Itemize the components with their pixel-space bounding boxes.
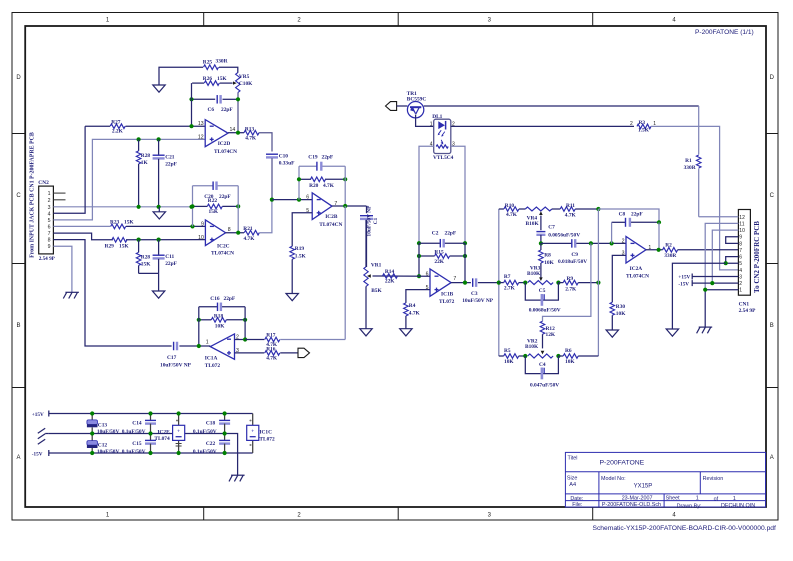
svg-text:6: 6 [48, 224, 51, 230]
svg-text:22pF: 22pF [322, 155, 334, 161]
node C8 right [657, 220, 661, 224]
node C7 bottom [539, 241, 543, 245]
node VR3 left [523, 281, 527, 285]
svg-text:R7: R7 [504, 274, 511, 280]
op-amp IC2D [198, 120, 237, 155]
resistor R12 [540, 321, 556, 338]
potentiometer VR5 [233, 73, 253, 93]
svg-text:0.0056uF/50V: 0.0056uF/50V [548, 233, 580, 239]
wire C6 top [192, 98, 239, 100]
wire IC2B feedback right [344, 166, 346, 206]
wire CN1 pin11 to gnd [705, 223, 738, 289]
svg-text:C16: C16 [210, 296, 220, 302]
wire CN1 pin10 to -15V [712, 230, 738, 283]
resistor R15 [434, 249, 449, 265]
resistor R26 [203, 76, 228, 85]
svg-text:15K: 15K [209, 209, 219, 215]
wire IC1B feedback left [418, 243, 420, 276]
svg-text:15K: 15K [141, 261, 151, 267]
wire R2 to CN1 pin7 [678, 249, 739, 251]
wire IC2C feedback left [192, 186, 194, 227]
capacitor C15 [122, 434, 156, 456]
svg-text:1: 1 [696, 496, 699, 502]
node R20 left [297, 177, 301, 181]
svg-text:C4: C4 [539, 362, 546, 368]
svg-text:22pF: 22pF [631, 212, 643, 218]
wire IC2B pin5 R19 [292, 213, 312, 247]
svg-text:1.5K: 1.5K [638, 128, 650, 134]
wire C7 to pin2 line [540, 235, 542, 244]
svg-text:IC2E: IC2E [157, 429, 170, 435]
capacitor C18 [193, 414, 230, 436]
svg-text:Drawn By:: Drawn By: [677, 503, 702, 509]
wire VR1 to ground [365, 286, 367, 328]
svg-text:C: C [16, 193, 21, 199]
svg-text:6: 6 [739, 255, 742, 261]
svg-text:10K: 10K [544, 260, 554, 266]
wire TR1 top line to R1 [424, 105, 699, 107]
resistor R28 1K [136, 139, 150, 206]
svg-text:Revision: Revision [703, 476, 724, 482]
left side label From INPUT JACK PCB CN1 P-200FAPRE PCB [29, 132, 35, 258]
svg-text:0.047uF/50V: 0.047uF/50V [530, 383, 559, 389]
svg-text:2.2K: 2.2K [112, 129, 124, 135]
svg-text:R28: R28 [141, 254, 151, 260]
svg-text:R17: R17 [266, 333, 276, 339]
svg-text:A: A [770, 455, 774, 461]
node CN1 pin1 [703, 288, 707, 292]
svg-text:R30: R30 [616, 304, 626, 310]
wire feedback left vertical IC2D [191, 83, 193, 126]
node pin3 line C21 [157, 205, 161, 209]
potentiometer VR1 [364, 220, 383, 294]
wire IC2C output [226, 232, 244, 234]
svg-text:R14: R14 [385, 269, 395, 275]
svg-text:C19: C19 [308, 155, 318, 161]
resistor R19 [290, 246, 307, 259]
node C21 top [157, 137, 161, 141]
svg-text:R27: R27 [111, 120, 121, 126]
wire C10 down to IC2B pin6 [271, 158, 273, 199]
wire R1 to CN1 pin12 [698, 169, 700, 217]
svg-text:C9: C9 [571, 252, 578, 258]
wire R23 line [126, 225, 205, 227]
optocoupler DL1 [430, 114, 455, 161]
wire CN2 pin3 line [53, 206, 191, 208]
wire R26 line [192, 82, 233, 84]
svg-text:IC2D: IC2D [218, 141, 231, 147]
svg-text:DL1: DL1 [432, 114, 442, 120]
node rail2 C13 [90, 431, 94, 435]
node R22 left [190, 204, 194, 208]
svg-text:C17: C17 [167, 355, 177, 361]
wire CN2 pin6 R23 line left [53, 225, 110, 227]
svg-text:R1: R1 [685, 158, 692, 164]
node C11 top [157, 238, 161, 242]
svg-text:0.1uF/50V: 0.1uF/50V [122, 429, 146, 435]
capacitor C16 [210, 296, 236, 311]
svg-text:330R: 330R [664, 253, 676, 259]
wire R17 line [245, 339, 264, 341]
svg-text:To CN2 P-200FRC PCB: To CN2 P-200FRC PCB [753, 221, 761, 293]
wire down to R17 [344, 206, 346, 340]
capacitor C1 [360, 205, 379, 267]
wire pin2 line [541, 242, 626, 244]
svg-text:R19: R19 [295, 246, 305, 252]
node IC1A pin1 [197, 344, 201, 348]
svg-text:1: 1 [739, 288, 742, 294]
wire CN2 pin8 down to C17 [53, 240, 171, 346]
svg-text:Titel: Titel [568, 455, 578, 461]
capacitor C4 box [525, 356, 559, 389]
svg-text:1K: 1K [141, 160, 149, 166]
power pins IC2E [154, 414, 184, 454]
node IC2B pin6 left [270, 198, 274, 202]
wire mid rail to earth [225, 434, 238, 476]
svg-text:15K: 15K [119, 243, 129, 249]
svg-text:A: A [16, 455, 20, 461]
svg-text:R3: R3 [639, 120, 646, 126]
svg-text:1: 1 [733, 496, 736, 502]
svg-text:R13: R13 [245, 127, 255, 133]
capacitor C14 [122, 414, 156, 436]
filename text bottom [593, 525, 777, 532]
ground earth below CN1 [697, 327, 713, 333]
resistor R10 [499, 203, 526, 218]
node rail1 C13 [90, 411, 94, 415]
sheet title top-right [695, 29, 754, 36]
ground below R25 left [153, 85, 165, 92]
node pin3 line right [189, 205, 193, 209]
svg-text:P-200FATONE (1/1): P-200FATONE (1/1) [695, 29, 754, 36]
capacitor C17 [160, 342, 192, 369]
svg-text:+15V: +15V [678, 275, 690, 281]
potentiometer VR4 [525, 207, 552, 227]
svg-text:IC1C: IC1C [259, 429, 272, 435]
svg-text:8: 8 [48, 238, 51, 244]
ground below C11 [152, 291, 164, 298]
svg-text:TL072: TL072 [439, 299, 455, 305]
wire R3 to CN1 pin4 [651, 126, 738, 270]
svg-text:C5: C5 [539, 288, 546, 294]
wire VR5 bottom to pin14 node [237, 93, 239, 133]
node rail2 C18 [223, 431, 227, 435]
svg-text:R18: R18 [214, 314, 224, 320]
svg-text:VTL5C4: VTL5C4 [433, 155, 454, 161]
node rail2 C14 [148, 431, 152, 435]
svg-text:R22: R22 [208, 198, 218, 204]
svg-text:9: 9 [201, 221, 204, 227]
wire R25 to VR5 top [219, 67, 238, 73]
svg-text:+: + [251, 428, 254, 434]
wire R30 to ground [611, 315, 613, 330]
svg-text:6: 6 [306, 195, 309, 201]
resistor R7 [499, 274, 526, 292]
potentiometer VR2 [525, 338, 553, 358]
capacitor C7 [536, 225, 580, 239]
svg-text:R23: R23 [110, 219, 120, 225]
ground earth below CN2 pin9 [63, 292, 79, 298]
transistor TR1 [407, 91, 427, 118]
resistor R23 [110, 219, 134, 228]
svg-text:5: 5 [739, 261, 742, 267]
svg-text:R8: R8 [544, 253, 551, 259]
wire CN1 pin6-5 jumper [726, 257, 739, 264]
svg-text:2.54 9P: 2.54 9P [39, 256, 56, 262]
resistor R25 [203, 59, 228, 70]
node VR2 left [523, 354, 527, 358]
wire R1 vertical top [698, 106, 700, 155]
svg-text:R11: R11 [566, 203, 575, 209]
svg-text:TL074CN: TL074CN [214, 149, 237, 155]
svg-text:C11: C11 [165, 254, 174, 260]
node rail1 C18 [223, 411, 227, 415]
svg-text:22pF: 22pF [219, 194, 231, 200]
svg-text:10: 10 [739, 228, 745, 234]
wire R4 to ground [405, 316, 407, 329]
svg-text:11: 11 [739, 221, 744, 227]
op-amp IC2A [622, 237, 652, 280]
wire +15V rail [49, 413, 253, 415]
svg-text:C7: C7 [548, 225, 555, 231]
svg-text:+: + [177, 428, 180, 434]
node R12 top [589, 241, 593, 245]
svg-text:A4: A4 [569, 482, 576, 488]
svg-text:4.7K: 4.7K [506, 212, 518, 218]
node rail1 IC2E [177, 411, 181, 415]
svg-text:R29: R29 [105, 243, 115, 249]
connector CN2 [38, 180, 55, 262]
resistor R18 [211, 314, 226, 330]
wire CN1 pin1 to earth [705, 290, 738, 327]
ground below R19 [286, 294, 298, 301]
node IC2C pin8 [236, 231, 240, 235]
svg-text:TL074CN: TL074CN [211, 250, 234, 256]
svg-text:22pF: 22pF [224, 296, 236, 302]
svg-text:330R: 330R [216, 59, 228, 65]
svg-text:15K: 15K [217, 76, 227, 82]
svg-text:Size: Size [567, 476, 578, 482]
svg-text:R28: R28 [141, 153, 151, 159]
node rail3 C12 [90, 451, 94, 455]
capacitor C13 [87, 414, 120, 436]
svg-text:3: 3 [739, 275, 742, 281]
ground below R4 [400, 329, 412, 336]
wire R21 up to pin6 [259, 200, 272, 233]
ground below CN1 pin5 [666, 329, 678, 336]
wire IC1A feedback left [198, 307, 200, 346]
node R28 top [137, 137, 141, 141]
svg-text:R20: R20 [309, 183, 319, 189]
svg-text:CN2: CN2 [38, 180, 49, 186]
svg-text:2.7K: 2.7K [504, 286, 516, 292]
capacitor C22 [193, 434, 230, 456]
op-amp IC1B [426, 269, 457, 305]
svg-text:R21: R21 [243, 226, 253, 232]
op-amp IC2C [198, 220, 234, 257]
svg-text:10uF/50V: 10uF/50V [97, 429, 120, 435]
svg-text:TL072: TL072 [259, 437, 275, 443]
svg-text:From INPUT JACK PCB CN1 P-200F: From INPUT JACK PCB CN1 P-200FAPRE PCB [29, 132, 35, 258]
wire C2 line [419, 242, 465, 244]
op-amp IC1A [205, 334, 239, 369]
svg-text:D: D [16, 75, 21, 81]
svg-text:-15V: -15V [678, 281, 689, 287]
node IC1B pin7 [463, 281, 467, 285]
resistor R3 [630, 120, 656, 133]
svg-text:1.5K: 1.5K [295, 253, 307, 259]
node VR2 right [556, 354, 560, 358]
capacitor C3 [462, 278, 494, 304]
svg-text:4: 4 [739, 268, 742, 274]
wire R13 to C10 [259, 133, 272, 152]
node C3-R7-R10 vertical [497, 209, 501, 356]
wire C11 R28 bottoms [139, 273, 159, 291]
power -15V to CN1 pin2 [678, 280, 738, 287]
chassis ground left [38, 428, 49, 444]
wire IC1B output [451, 282, 471, 284]
svg-text:VR5: VR5 [239, 74, 250, 80]
svg-text:C10: C10 [279, 154, 289, 160]
capacitor C21 [153, 139, 178, 206]
svg-text:22pF: 22pF [165, 261, 177, 267]
svg-text:C8: C8 [619, 212, 626, 218]
svg-text:R9: R9 [567, 276, 574, 282]
ground below VR1 [360, 329, 372, 336]
svg-text:YX15P: YX15P [634, 484, 653, 490]
wire IC2D output [228, 132, 244, 134]
node rail3 C15 [148, 451, 152, 455]
svg-text:BC559C: BC559C [407, 97, 427, 103]
node rail1 C14 [148, 411, 152, 415]
wire IC2A pin3 to R30 [612, 255, 626, 302]
svg-text:23-Mar-2007: 23-Mar-2007 [622, 495, 653, 501]
svg-text:22K: 22K [434, 259, 444, 265]
svg-text:C14: C14 [132, 420, 142, 426]
wire CN1 pin12 [699, 216, 739, 218]
wire R25 left + ground stem [159, 67, 203, 85]
svg-text:Schematic-YX15P-200FATONE-BOAR: Schematic-YX15P-200FATONE-BOARD-CIR-00-V… [593, 525, 777, 532]
wire R18 line [199, 319, 245, 321]
wire IC2A output [646, 249, 663, 251]
resistor R9 [558, 276, 598, 293]
svg-text:4.7K: 4.7K [409, 310, 421, 316]
wire IC1A output [179, 345, 210, 347]
resistor R27 [110, 120, 125, 135]
capacitor C8 [612, 212, 659, 227]
wire CN2 pin4 to R27 [53, 126, 85, 213]
wire IC1B pin5 to R4 [406, 290, 430, 303]
svg-text:R26: R26 [203, 76, 213, 82]
svg-text:4.7K: 4.7K [323, 183, 335, 189]
wire IC1A feedback right [244, 307, 246, 340]
svg-text:2.54 9P: 2.54 9P [739, 308, 756, 314]
svg-text:P-200FATONE: P-200FATONE [600, 460, 645, 467]
svg-text:R15: R15 [434, 249, 444, 255]
svg-text:R2: R2 [665, 242, 672, 248]
svg-text:9: 9 [739, 235, 742, 241]
node IC1B pin6 [417, 274, 421, 278]
svg-text:10K: 10K [215, 323, 225, 329]
resistor R4 [404, 303, 421, 316]
svg-text:5: 5 [48, 218, 51, 224]
svg-text:15K: 15K [124, 219, 134, 225]
svg-text:C13: C13 [98, 423, 108, 429]
wire C8 left down [611, 222, 613, 243]
resistor R16 [265, 346, 280, 361]
node CN1 pin5 [724, 261, 728, 265]
capacitor C11 [153, 240, 178, 274]
node IC2B pin7 [343, 204, 347, 208]
wire R17 to IC2B out [280, 339, 345, 341]
wire C19 top [299, 165, 345, 167]
svg-text:IC1A: IC1A [205, 356, 218, 362]
svg-text:12K: 12K [546, 332, 556, 338]
svg-text:8: 8 [739, 241, 742, 247]
svg-text:IC1B: IC1B [441, 291, 454, 297]
wire pin6 line [272, 199, 312, 201]
svg-text:C10K: C10K [239, 81, 253, 87]
svg-text:22pF: 22pF [165, 162, 177, 168]
capacitor C20 [204, 181, 231, 200]
svg-text:330R: 330R [684, 165, 696, 171]
resistor R22 [207, 198, 222, 215]
resistor R5 [499, 348, 526, 365]
power -15V label left [32, 450, 49, 458]
wire R15 line [419, 255, 465, 257]
svg-text:4: 4 [48, 211, 51, 217]
svg-text:B: B [770, 323, 774, 329]
svg-text:-15V: -15V [32, 452, 43, 458]
svg-text:2: 2 [630, 121, 633, 127]
resistor R14 [383, 269, 398, 284]
node pin3 line R28 [137, 205, 141, 209]
svg-text:10: 10 [198, 235, 204, 241]
svg-text:2.7K: 2.7K [565, 287, 577, 293]
svg-text:C12: C12 [98, 443, 108, 449]
svg-text:0.1uF/50V: 0.1uF/50V [193, 449, 217, 455]
node rail3 C22 [223, 451, 227, 455]
svg-text:of: of [714, 496, 719, 502]
node C6 right [236, 97, 240, 101]
svg-text:R25: R25 [203, 59, 213, 65]
svg-text:10K: 10K [616, 311, 626, 317]
wire R12 route [543, 243, 591, 321]
svg-text:P-200FATONE-OLD.Sch: P-200FATONE-OLD.Sch [602, 502, 661, 508]
svg-text:Model No:: Model No: [601, 476, 626, 482]
node R11 right [596, 207, 600, 211]
svg-text:DECHUN QIN: DECHUN QIN [721, 503, 755, 509]
wire CN2 pin9 down [53, 246, 72, 292]
wire CN1 pin9-8 jumper [726, 237, 739, 244]
svg-text:7: 7 [739, 248, 742, 254]
svg-text:7: 7 [453, 276, 456, 282]
wire TR1 base down [416, 115, 434, 127]
node C8 left bottom [610, 241, 614, 245]
node IC2D pin14 [236, 131, 240, 135]
svg-text:C6: C6 [208, 107, 215, 113]
node R15 right [463, 254, 467, 258]
svg-text:7: 7 [48, 231, 51, 237]
resistor R13 [244, 127, 259, 142]
wire CN2 pin2 stub [53, 199, 65, 201]
node R9 right [596, 281, 600, 285]
node VR3 right [556, 281, 560, 285]
capacitor C19 [308, 155, 334, 171]
svg-text:TL074CN: TL074CN [319, 222, 342, 228]
svg-text:+15V: +15V [32, 412, 44, 418]
svg-text:B10K: B10K [527, 271, 541, 277]
